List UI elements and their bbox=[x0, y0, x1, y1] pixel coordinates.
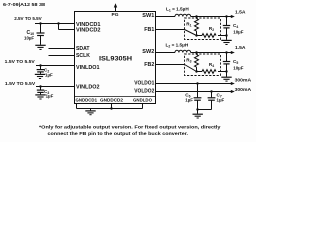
svg-text:1.5V TO 5.5V: 1.5V TO 5.5V bbox=[5, 59, 36, 65]
svg-text:1µF: 1µF bbox=[46, 94, 54, 99]
svg-text:6-7-09|A12 58 38: 6-7-09|A12 58 38 bbox=[3, 2, 46, 7]
svg-text:300mA: 300mA bbox=[235, 78, 252, 83]
svg-text:FB1: FB1 bbox=[144, 27, 154, 33]
svg-text:FB2: FB2 bbox=[144, 62, 154, 68]
svg-text:SW1: SW1 bbox=[142, 13, 154, 19]
svg-text:1µF: 1µF bbox=[217, 98, 225, 103]
svg-text:300mA: 300mA bbox=[235, 87, 252, 92]
svg-text:connect the FB pin to the outp: connect the FB pin to the output of the … bbox=[48, 131, 189, 137]
svg-text:R1: R1 bbox=[186, 21, 191, 27]
svg-text:VOLDO1: VOLDO1 bbox=[134, 80, 154, 86]
svg-text:VOLDO2: VOLDO2 bbox=[134, 89, 154, 95]
svg-text:SW2: SW2 bbox=[142, 49, 154, 55]
svg-text:ISL9305H: ISL9305H bbox=[99, 57, 132, 63]
svg-text:C4: C4 bbox=[233, 23, 238, 29]
svg-text:L2 = 1.5µH: L2 = 1.5µH bbox=[166, 43, 189, 49]
svg-text:R2: R2 bbox=[209, 26, 214, 32]
svg-text:GNDDCD1: GNDDCD1 bbox=[76, 97, 98, 102]
svg-text:10µF: 10µF bbox=[24, 35, 34, 40]
svg-text:VINLDO2: VINLDO2 bbox=[76, 84, 100, 90]
svg-text:*Only for adjustable output ve: *Only for adjustable output version. For… bbox=[39, 124, 221, 130]
svg-text:1.5V TO 5.5V: 1.5V TO 5.5V bbox=[5, 81, 36, 87]
svg-text:10µF: 10µF bbox=[233, 65, 243, 70]
svg-text:VINDCD2: VINDCD2 bbox=[76, 28, 101, 34]
svg-text:1µF: 1µF bbox=[45, 73, 53, 78]
svg-text:VINLDO1: VINLDO1 bbox=[76, 65, 100, 71]
svg-text:GNDDCD2: GNDDCD2 bbox=[100, 97, 124, 102]
svg-text:1µF: 1µF bbox=[185, 98, 193, 103]
svg-text:SDAT: SDAT bbox=[76, 46, 90, 52]
svg-text:10µF: 10µF bbox=[233, 29, 243, 34]
svg-text:2.5V TO 5.5V: 2.5V TO 5.5V bbox=[14, 16, 42, 22]
svg-text:GNDLDO: GNDLDO bbox=[133, 97, 153, 102]
svg-text:SCLK: SCLK bbox=[76, 53, 90, 59]
svg-text:1.5A: 1.5A bbox=[235, 9, 246, 15]
svg-text:R3: R3 bbox=[186, 57, 191, 63]
svg-text:C5: C5 bbox=[233, 59, 238, 65]
svg-text:R4: R4 bbox=[209, 62, 214, 68]
svg-text:1.5A: 1.5A bbox=[235, 45, 246, 51]
svg-text:PG: PG bbox=[112, 12, 120, 17]
svg-text:L1 = 1.5µH: L1 = 1.5µH bbox=[166, 6, 189, 12]
